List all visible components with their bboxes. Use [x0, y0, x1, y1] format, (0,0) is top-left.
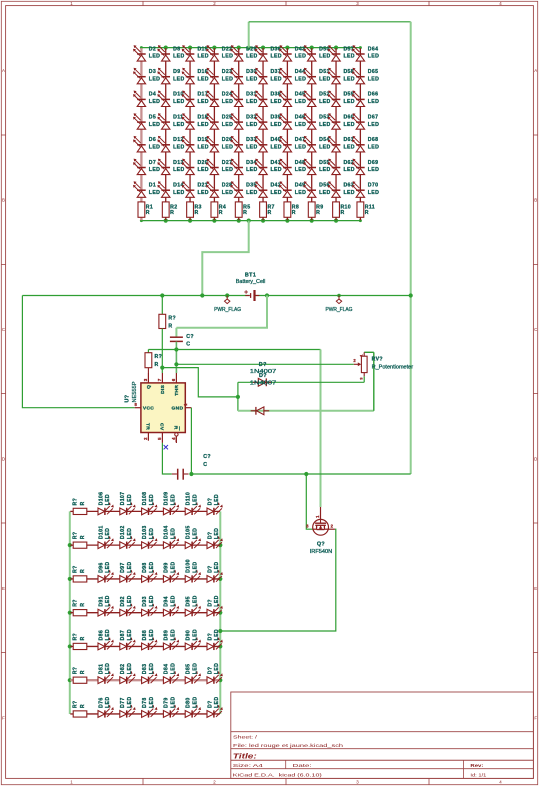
svg-text:PWR_FLAG: PWR_FLAG [326, 307, 353, 313]
svg-text:C: C [203, 462, 207, 468]
svg-text:LED: LED [270, 190, 281, 196]
svg-text:D8: D8 [173, 46, 180, 52]
resistor R4 [211, 202, 226, 217]
diode D? 1N4007 (to pot pin 1, pointing left) [251, 407, 270, 415]
LED D27 [206, 159, 233, 175]
svg-text:LED: LED [214, 595, 220, 606]
wire column 10 of top LED matrix [359, 48, 361, 220]
svg-text:LED: LED [105, 663, 111, 674]
svg-text:LED: LED [192, 629, 198, 640]
svg-text:LED: LED [197, 122, 208, 128]
wire column 7 of top LED matrix [286, 48, 288, 220]
svg-text:D110: D110 [186, 492, 192, 506]
LED D85 (row 6) [185, 663, 201, 684]
svg-text:D7: D7 [149, 160, 156, 166]
svg-text:LED: LED [197, 99, 208, 105]
svg-text:R: R [155, 362, 159, 368]
svg-text:R: R [80, 704, 86, 708]
svg-text:Q?: Q? [317, 542, 325, 548]
resistor R? (row 1) [72, 498, 86, 515]
LED D18 [182, 113, 209, 129]
svg-text:LED: LED [192, 595, 198, 606]
wire CV pin to capacitor [162, 443, 171, 474]
svg-text:LED: LED [171, 595, 177, 606]
LED D2 [133, 45, 160, 61]
svg-text:NE555P: NE555P [132, 381, 138, 403]
title block [231, 692, 534, 778]
svg-text:R: R [80, 636, 86, 640]
LED D55 [303, 159, 330, 175]
svg-text:A: A [534, 68, 537, 73]
power flag PWR_FLAG (right) [326, 294, 353, 314]
junction THR column / gate feed wire [174, 347, 178, 351]
junction THR column / wiper wire [174, 362, 178, 366]
svg-text:LED: LED [368, 190, 379, 196]
junction battery minus / down riser [265, 293, 269, 297]
resistor R2 [162, 202, 177, 217]
LED D37 [255, 68, 282, 84]
svg-text:R: R [170, 210, 174, 216]
svg-text:LED: LED [173, 122, 184, 128]
svg-text:D107: D107 [120, 492, 126, 506]
diode D? 1N4007 (to pot pin 3) [250, 362, 277, 386]
svg-text:LED: LED [192, 697, 198, 708]
LED D? (row 6) [207, 663, 223, 684]
svg-text:D9: D9 [173, 69, 180, 75]
svg-text:LED: LED [222, 99, 233, 105]
svg-text:IRF540N: IRF540N [310, 549, 333, 555]
svg-text:D106: D106 [98, 492, 104, 506]
svg-text:D94: D94 [164, 596, 170, 607]
svg-text:LED: LED [343, 190, 354, 196]
LED D34 [230, 159, 257, 175]
LED D66 [352, 91, 379, 107]
svg-text:R: R [316, 210, 320, 216]
svg-text:LED: LED [368, 76, 379, 82]
LED D49 [279, 181, 306, 197]
svg-text:D?: D? [207, 599, 213, 607]
LED D31 [230, 91, 257, 107]
no-connect X near CV pin [164, 445, 168, 449]
wire GND pin down to ground row [190, 408, 192, 474]
svg-text:LED: LED [197, 54, 208, 60]
svg-text:D?: D? [259, 373, 267, 379]
svg-text:LED: LED [295, 54, 306, 60]
junction battery row / R? divider column [160, 293, 164, 297]
svg-text:LED: LED [149, 190, 160, 196]
LED D12 [157, 136, 184, 152]
svg-text:D98: D98 [142, 562, 148, 573]
svg-text:R?: R? [72, 565, 78, 573]
svg-text:LED: LED [149, 697, 155, 708]
svg-text:R?: R? [72, 667, 78, 675]
LED D11 [157, 113, 184, 129]
svg-text:DIS: DIS [160, 384, 166, 393]
LED D1 [133, 181, 160, 197]
wire zigzag from resistor bus down to battery row [202, 221, 248, 296]
svg-text:C: C [186, 342, 190, 348]
resistor R? (row 3) [72, 565, 86, 582]
svg-text:Id: 1/1: Id: 1/1 [470, 772, 486, 778]
svg-text:D93: D93 [142, 596, 148, 607]
svg-text:LED: LED [173, 145, 184, 151]
svg-text:LED: LED [270, 76, 281, 82]
svg-text:D2: D2 [149, 46, 156, 52]
wire from battery row down to C? top plate [176, 296, 267, 337]
svg-text:D6: D6 [149, 137, 156, 143]
resistor R? (on 555 output Q) [145, 353, 162, 373]
LED D100 (row 3) [185, 559, 201, 582]
junction battery row / right rail [409, 293, 413, 297]
LED D60 [328, 113, 355, 129]
svg-text:LED: LED [173, 167, 184, 173]
svg-text:D?: D? [207, 633, 213, 641]
svg-text:7: 7 [157, 378, 162, 381]
svg-text:R: R [194, 210, 198, 216]
svg-text:R?: R? [72, 633, 78, 641]
svg-text:R?: R? [72, 532, 78, 540]
LED D41 [255, 159, 282, 175]
svg-text:LED: LED [343, 122, 354, 128]
LED D? (row 2) [207, 528, 223, 549]
svg-text:E: E [534, 586, 537, 591]
wire column 3 of top LED matrix [189, 48, 191, 220]
wire VCC feed from battery row to pin 8 [22, 296, 134, 408]
LED D51 [303, 68, 330, 84]
svg-text:R: R [168, 323, 172, 329]
resistor R7 [260, 202, 275, 217]
svg-text:LED: LED [127, 629, 133, 640]
svg-text:BT1: BT1 [245, 272, 256, 278]
svg-text:D97: D97 [120, 562, 126, 573]
LED D43 [279, 45, 306, 61]
resistor R? (divider, above DIS) [159, 296, 176, 330]
LED D59 [328, 91, 355, 107]
svg-text:U?: U? [125, 395, 131, 403]
svg-text:LED: LED [214, 494, 220, 505]
svg-text:LED: LED [173, 190, 184, 196]
svg-text:R: R [340, 210, 344, 216]
svg-text:LED: LED [368, 145, 379, 151]
svg-text:Title:: Title: [233, 752, 258, 761]
LED D? (row 5) [207, 629, 223, 650]
svg-text:D: D [534, 457, 537, 462]
LED D90 (row 5) [185, 629, 201, 650]
svg-text:C?: C? [186, 334, 194, 340]
svg-text:LED: LED [319, 145, 330, 151]
wire top matrix positive bus [141, 47, 360, 49]
wire column 6 of top LED matrix [262, 48, 264, 220]
svg-text:LED: LED [192, 561, 198, 572]
wire branch through diode to pot pin 1 [238, 352, 374, 411]
svg-text:CV: CV [158, 423, 164, 431]
resistor R5 [235, 202, 250, 217]
svg-text:LED: LED [192, 494, 198, 505]
svg-text:LED: LED [197, 167, 208, 173]
LED D15 [182, 45, 209, 61]
svg-text:D80: D80 [186, 697, 192, 708]
LED D86 (row 5) [98, 629, 114, 650]
LED D47 [279, 136, 306, 152]
svg-text:LED: LED [222, 190, 233, 196]
LED D8 [157, 45, 184, 61]
LED D6 [133, 136, 160, 152]
wire bottom matrix left bus [69, 511, 71, 714]
battery BT1 Battery_Cell [236, 272, 266, 301]
svg-text:LED: LED [222, 54, 233, 60]
LED D70 [352, 181, 379, 197]
svg-text:B: B [534, 198, 537, 203]
wire row 1 of bottom LED matrix [70, 510, 220, 512]
svg-text:D101: D101 [98, 525, 104, 539]
op-amp/timer U? NE555P [125, 373, 192, 443]
svg-text:Sheet: /: Sheet: / [233, 735, 258, 741]
svg-text:D69: D69 [368, 160, 379, 166]
LED D78 (row 7) [142, 697, 158, 718]
LED D29 [230, 45, 257, 61]
svg-text:LED: LED [214, 561, 220, 572]
svg-text:D1: D1 [149, 183, 156, 189]
svg-text:D?: D? [207, 565, 213, 573]
wire top matrix bottom resistor bus [141, 220, 360, 222]
svg-text:D?: D? [259, 362, 267, 368]
svg-text:D68: D68 [368, 137, 379, 143]
svg-text:D109: D109 [164, 492, 170, 506]
LED D96 (row 3) [98, 561, 114, 582]
svg-text:LED: LED [173, 76, 184, 82]
svg-text:B: B [2, 198, 5, 203]
LED D91 (row 4) [98, 595, 114, 616]
wire row 6 of bottom LED matrix [70, 679, 220, 681]
svg-text:D64: D64 [368, 46, 379, 52]
svg-text:LED: LED [149, 494, 155, 505]
svg-text:D84: D84 [164, 664, 170, 675]
svg-text:KiCad E.D.A. kicad (6.0.10): KiCad E.D.A. kicad (6.0.10) [233, 772, 323, 778]
resistor R? (row 2) [72, 532, 86, 549]
LED D23 [206, 68, 233, 84]
LED D52 [303, 91, 330, 107]
svg-text:LED: LED [222, 122, 233, 128]
svg-text:LED: LED [319, 167, 330, 173]
LED D103 (row 2) [142, 525, 158, 548]
svg-text:A: A [2, 68, 5, 73]
wire ground row to right rail [191, 473, 410, 475]
svg-text:F: F [534, 716, 537, 721]
svg-text:LED: LED [173, 99, 184, 105]
svg-text:LED: LED [192, 663, 198, 674]
svg-text:R: R [80, 535, 86, 539]
LED D109 (row 1) [163, 492, 179, 515]
LED D38 [255, 91, 282, 107]
LED D25 [206, 113, 233, 129]
svg-text:E: E [2, 586, 5, 591]
svg-text:LED: LED [105, 528, 111, 539]
svg-text:Size: A4: Size: A4 [233, 763, 264, 769]
svg-text:LED: LED [343, 167, 354, 173]
svg-text:LED: LED [197, 76, 208, 82]
svg-text:LED: LED [295, 122, 306, 128]
LED D28 [206, 181, 233, 197]
LED D69 [352, 159, 379, 175]
svg-text:LED: LED [214, 663, 220, 674]
svg-text:LED: LED [214, 697, 220, 708]
svg-text:LED: LED [222, 167, 233, 173]
capacitor C? (on CV) [172, 454, 211, 480]
svg-text:3: 3 [143, 378, 148, 381]
LED D105 (row 2) [185, 525, 201, 548]
LED D33 [230, 136, 257, 152]
junction steering diode branches [236, 395, 240, 399]
resistor R? (row 5) [72, 633, 86, 650]
LED D16 [182, 68, 209, 84]
svg-text:LED: LED [127, 595, 133, 606]
svg-text:R: R [146, 210, 150, 216]
svg-text:D99: D99 [164, 562, 170, 573]
LED D5 [133, 113, 160, 129]
wire column 8 of top LED matrix [311, 48, 313, 220]
svg-text:LED: LED [105, 561, 111, 572]
LED D? (row 7) [207, 697, 223, 718]
svg-text:LED: LED [295, 167, 306, 173]
LED D104 (row 2) [163, 525, 179, 548]
LED D42 [255, 181, 282, 197]
LED D40 [255, 136, 282, 152]
svg-text:LED: LED [214, 629, 220, 640]
svg-text:LED: LED [127, 697, 133, 708]
junction ground row / MOSFET source [304, 472, 308, 476]
svg-text:D85: D85 [186, 664, 192, 675]
svg-text:LED: LED [127, 494, 133, 505]
svg-text:PWR_FLAG: PWR_FLAG [214, 307, 241, 313]
LED D67 [352, 113, 379, 129]
svg-text:LED: LED [105, 629, 111, 640]
svg-text:LED: LED [171, 561, 177, 572]
svg-text:R?: R? [72, 700, 78, 708]
LED D50 [303, 45, 330, 61]
LED D77 (row 7) [120, 697, 136, 718]
resistor R? (row 6) [72, 667, 86, 684]
svg-text:File: led rouge et jaune.kicad: File: led rouge et jaune.kicad_sch [233, 743, 344, 749]
wire column 1 of top LED matrix [140, 48, 142, 220]
svg-text:D?: D? [207, 667, 213, 675]
LED D79 (row 7) [163, 697, 179, 718]
svg-text:D70: D70 [368, 183, 379, 189]
LED D68 [352, 136, 379, 152]
LED D56 [303, 181, 330, 197]
svg-text:D87: D87 [120, 630, 126, 641]
svg-text:R?: R? [72, 599, 78, 607]
wire DIS to steering diodes junction [162, 368, 238, 397]
svg-text:R: R [292, 210, 296, 216]
svg-text:C?: C? [203, 454, 211, 460]
svg-text:LED: LED [171, 528, 177, 539]
svg-text:D4: D4 [149, 92, 156, 98]
LED D19 [182, 136, 209, 152]
svg-text:LED: LED [368, 122, 379, 128]
wire bottom matrix right bus [219, 511, 221, 714]
svg-text:D82: D82 [120, 664, 126, 675]
svg-text:D5: D5 [149, 114, 156, 120]
LED D83 (row 6) [142, 663, 158, 684]
wire column 2 of top LED matrix [165, 48, 167, 220]
LED D92 (row 4) [120, 595, 136, 616]
LED D88 (row 5) [142, 629, 158, 650]
potentiometer RV? R_Potentiometer [353, 352, 413, 380]
svg-text:1N4007: 1N4007 [250, 380, 277, 386]
svg-text:D102: D102 [120, 525, 126, 539]
LED D64 [352, 45, 379, 61]
LED D46 [279, 113, 306, 129]
resistor R10 [333, 202, 351, 217]
svg-text:LED: LED [149, 145, 160, 151]
svg-text:D96: D96 [98, 562, 104, 573]
wire row 3 of bottom LED matrix [70, 578, 220, 580]
svg-text:LED: LED [319, 99, 330, 105]
wire R? bottom to DIS pin with junction [160, 329, 164, 374]
LED D97 (row 3) [120, 561, 136, 582]
LED D80 (row 7) [185, 697, 201, 718]
svg-text:D104: D104 [164, 525, 170, 539]
svg-text:LED: LED [246, 167, 257, 173]
svg-text:D89: D89 [164, 630, 170, 641]
wire branch through diode to pot pin 3 [238, 376, 364, 397]
svg-text:R?: R? [168, 316, 176, 322]
junction battery row / zigzag riser [200, 293, 204, 297]
svg-text:6: 6 [171, 378, 176, 381]
svg-text:LED: LED [222, 145, 233, 151]
svg-text:LED: LED [368, 54, 379, 60]
svg-text:LED: LED [171, 663, 177, 674]
LED D63 [328, 181, 355, 197]
svg-text:R_Potentiometer: R_Potentiometer [372, 364, 414, 370]
svg-text:LED: LED [368, 167, 379, 173]
svg-text:LED: LED [197, 190, 208, 196]
svg-text:C: C [2, 327, 5, 332]
svg-text:LED: LED [149, 54, 160, 60]
wire column 9 of top LED matrix [335, 48, 337, 220]
wire row 5 of bottom LED matrix [70, 645, 220, 647]
LED D3 [133, 68, 160, 84]
svg-text:D105: D105 [186, 525, 192, 539]
svg-text:LED: LED [149, 663, 155, 674]
svg-text:D67: D67 [368, 114, 379, 120]
svg-text:D91: D91 [98, 596, 104, 607]
LED D101 (row 2) [98, 525, 114, 548]
svg-text:LED: LED [149, 595, 155, 606]
svg-text:GND: GND [172, 406, 184, 412]
svg-text:D78: D78 [142, 697, 148, 708]
svg-text:R: R [80, 501, 86, 505]
LED D53 [303, 113, 330, 129]
svg-text:LED: LED [149, 122, 160, 128]
svg-text:LED: LED [127, 528, 133, 539]
svg-text:LED: LED [295, 145, 306, 151]
svg-text:D88: D88 [142, 630, 148, 641]
svg-text:F: F [2, 716, 5, 721]
LED D44 [279, 68, 306, 84]
svg-text:D77: D77 [120, 697, 126, 708]
svg-text:TR: TR [144, 423, 150, 430]
LED D57 [328, 45, 355, 61]
junction dots on top bus [140, 46, 362, 50]
LED D98 (row 3) [142, 561, 158, 582]
LED D32 [230, 113, 257, 129]
svg-text:LED: LED [270, 167, 281, 173]
wire THR to potentiometer wiper [176, 363, 353, 365]
svg-text:R: R [219, 210, 223, 216]
LED D36 [255, 45, 282, 61]
svg-text:D65: D65 [368, 69, 379, 75]
